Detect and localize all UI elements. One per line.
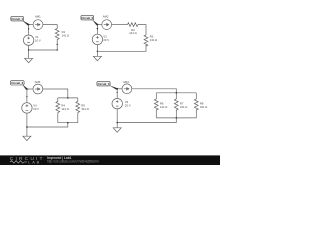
svg-text:341 Ω: 341 Ω bbox=[200, 105, 207, 109]
svg-text:341 Ω: 341 Ω bbox=[81, 107, 88, 111]
svg-text:20 V: 20 V bbox=[33, 107, 39, 111]
svg-text:R5: R5 bbox=[81, 103, 85, 107]
svg-text:10 V: 10 V bbox=[35, 39, 41, 43]
svg-text:R2: R2 bbox=[131, 28, 135, 32]
svg-text:AM3: AM3 bbox=[35, 80, 41, 84]
svg-text:Circuit_4: Circuit_4 bbox=[98, 82, 110, 86]
svg-text:241 Ω: 241 Ω bbox=[150, 38, 157, 42]
svg-text:141 Ω: 141 Ω bbox=[61, 107, 68, 111]
svg-text:http://circuitlab.com/c/7e6b4q: http://circuitlab.com/c/7e6b4q5t8a7m bbox=[47, 160, 99, 164]
svg-text:20 V: 20 V bbox=[125, 103, 131, 107]
svg-text:R8: R8 bbox=[200, 102, 204, 106]
svg-text:R6: R6 bbox=[160, 102, 164, 106]
svg-text:20 V: 20 V bbox=[103, 38, 109, 42]
svg-text:AM4: AM4 bbox=[123, 80, 129, 84]
svg-text:V4: V4 bbox=[125, 100, 129, 104]
svg-text:R7: R7 bbox=[180, 102, 184, 106]
svg-text:LAB: LAB bbox=[28, 159, 41, 164]
svg-text:Circuit_2: Circuit_2 bbox=[81, 16, 93, 20]
svg-text:Circuit_1: Circuit_1 bbox=[11, 17, 23, 21]
svg-text:Circuit_3: Circuit_3 bbox=[11, 81, 23, 85]
svg-text:241 Ω: 241 Ω bbox=[180, 105, 187, 109]
svg-text:AM1: AM1 bbox=[35, 15, 41, 19]
svg-text:V2: V2 bbox=[103, 35, 107, 39]
svg-text:R4: R4 bbox=[61, 103, 65, 107]
svg-text:V1: V1 bbox=[35, 35, 39, 39]
svg-text:R3: R3 bbox=[150, 34, 154, 38]
svg-text:141 Ω: 141 Ω bbox=[160, 105, 167, 109]
svg-text:AM2: AM2 bbox=[103, 15, 109, 19]
svg-text:141 Ω: 141 Ω bbox=[129, 31, 136, 35]
svg-text:141 Ω: 141 Ω bbox=[62, 34, 69, 38]
svg-text:V3: V3 bbox=[33, 104, 37, 108]
svg-text:R1: R1 bbox=[62, 30, 66, 34]
